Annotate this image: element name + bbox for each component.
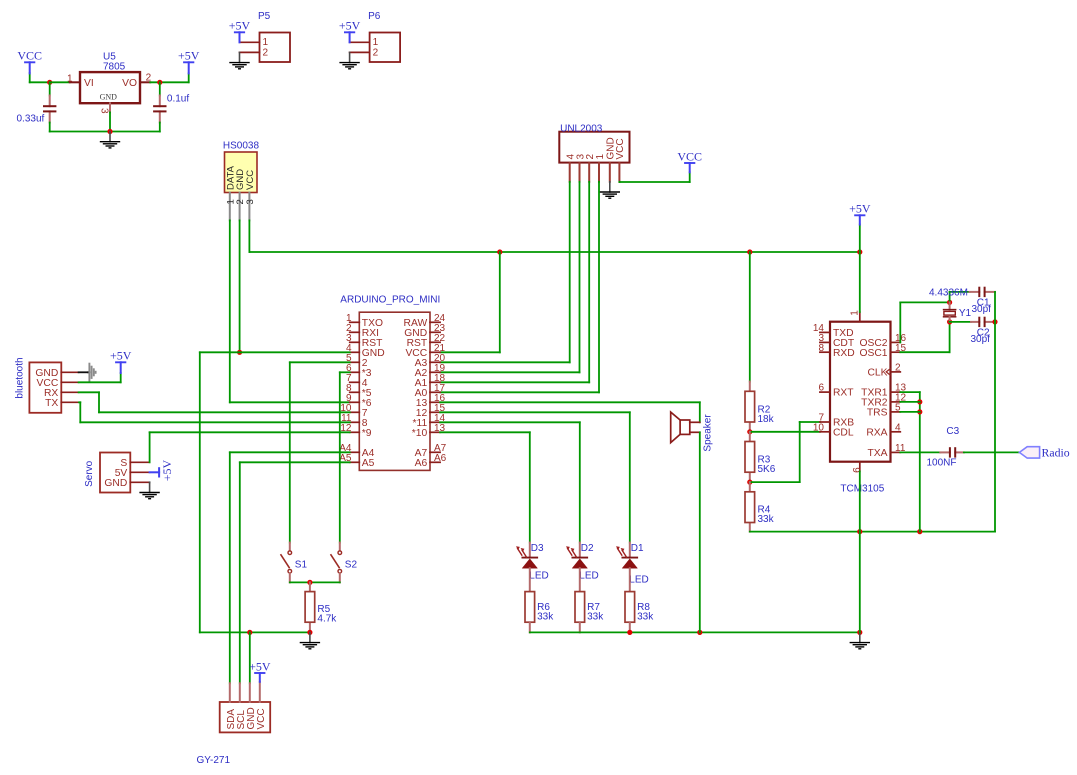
UNL2003 pin 2 lead bbox=[588, 163, 590, 182]
mcu ARDUINO_PRO_MINI body bbox=[359, 312, 430, 470]
connector bluetooth body bbox=[29, 362, 61, 412]
ARDUINO pin 21 (VCC) right stub bbox=[430, 351, 440, 353]
speaker pin 1 stub bbox=[690, 421, 700, 423]
junction TRS bbox=[917, 409, 922, 414]
capacitor 0.33uf leads bbox=[49, 82, 51, 95]
svg-text:S2: S2 bbox=[345, 560, 358, 571]
resistor R4 33k bbox=[745, 492, 755, 523]
speaker body bbox=[680, 420, 690, 434]
Servo S stub bbox=[130, 461, 149, 463]
resistor R5 leads bbox=[309, 582, 311, 591]
GY-271 SCL lead bbox=[239, 683, 241, 702]
voltage regulator U5 7805 body bbox=[80, 72, 140, 103]
wire HS0038 GND down to GND net bbox=[239, 220, 241, 352]
TCM3105 pin 3 (CDT) stub bbox=[820, 341, 830, 343]
junction C2 right bbox=[992, 319, 997, 324]
ARDUINO pin 8 (*5) left stub bbox=[350, 391, 360, 393]
svg-text:1: 1 bbox=[373, 37, 379, 48]
P6 pin 1 wire bbox=[350, 41, 370, 43]
svg-text:10: 10 bbox=[813, 422, 825, 433]
TCM3105 pin 8 (RXD) stub bbox=[820, 351, 830, 353]
junction R3/R4 to RXB bbox=[747, 480, 752, 485]
junction at U5 ground bbox=[107, 129, 112, 134]
ARDUINO pin 2 (RXI) left stub bbox=[350, 331, 360, 333]
wire TXR2 to column bbox=[900, 401, 920, 403]
ARDUINO pin 13 (*10) right stub bbox=[430, 431, 440, 433]
resistor R2 leads bbox=[749, 382, 751, 392]
ARDUINO pin 19 (A2) right stub bbox=[430, 371, 440, 373]
svg-text:+5V: +5V bbox=[178, 49, 200, 63]
svg-text:+5V: +5V bbox=[229, 19, 251, 33]
wire UNL2003 pin3 to Arduino A2 bbox=[579, 182, 581, 372]
capacitor C2 30pf leads bbox=[950, 321, 971, 323]
svg-text:+5V: +5V bbox=[339, 19, 361, 33]
svg-text:HS0038: HS0038 bbox=[223, 141, 260, 152]
svg-text:7805: 7805 bbox=[103, 62, 126, 73]
TCM3105 pin 12 (TXR2) stub bbox=[891, 401, 901, 403]
ARDUINO pin A6 right stub bbox=[430, 461, 440, 463]
capacitor 0.1uf leads bbox=[159, 82, 161, 95]
TCM3105 pin 10 (CDL) stub bbox=[820, 431, 830, 433]
resistor R6 33k bbox=[525, 592, 535, 623]
svg-text:OSC1: OSC1 bbox=[859, 348, 887, 359]
switch S2 bbox=[339, 543, 341, 551]
svg-text:A6: A6 bbox=[434, 453, 447, 464]
wire U5 VO to +5V and C-0.1uf bbox=[150, 81, 189, 83]
svg-text:4.4336M: 4.4336M bbox=[929, 287, 968, 298]
ARDUINO pin 7 (4) left stub bbox=[350, 381, 360, 383]
header P6 body bbox=[370, 33, 401, 63]
LED D2 lead to R7 bbox=[579, 568, 581, 591]
svg-text:4: 4 bbox=[895, 422, 901, 433]
LED D1 lead to R8 bbox=[629, 568, 631, 591]
svg-text:5K6: 5K6 bbox=[758, 464, 776, 475]
LED D2 bbox=[579, 543, 581, 558]
ARDUINO pin 5 (2) left stub bbox=[350, 361, 360, 363]
svg-text:2: 2 bbox=[895, 363, 901, 374]
LED D3 lead to R6 bbox=[529, 568, 531, 591]
U5 pin 2 stub bbox=[140, 81, 150, 83]
svg-text:6: 6 bbox=[818, 383, 824, 394]
junction crystal bottom bbox=[947, 319, 952, 324]
capacitor C3 100NF leads bbox=[940, 451, 950, 453]
ARDUINO pin A7 right stub bbox=[430, 451, 440, 453]
svg-text:CLK: CLK bbox=[867, 368, 887, 379]
LED D1 bbox=[629, 543, 631, 558]
wire Arduino GND pin4 to left bbox=[200, 351, 350, 353]
wire TCM OSC1 to crystal bottom bbox=[900, 351, 949, 353]
wire Arduino pin16 13 to speaker bbox=[440, 401, 700, 403]
capacitor C1 30pf leads bbox=[970, 291, 980, 293]
TCM3105 pin 6 (RXT) stub bbox=[820, 391, 830, 393]
wire TRS to column bbox=[900, 411, 920, 413]
switch S1 bbox=[289, 543, 291, 551]
svg-text:Radio: Radio bbox=[1042, 446, 1070, 460]
svg-text:2: 2 bbox=[373, 48, 379, 59]
junction speaker return bbox=[697, 630, 702, 635]
TCM3105 pin 7 (RXB) stub bbox=[820, 421, 830, 423]
svg-text:GND: GND bbox=[104, 478, 127, 489]
svg-text:4.7k: 4.7k bbox=[317, 614, 337, 625]
svg-text:UNL2003: UNL2003 bbox=[560, 123, 603, 134]
supply +5V (near U5) bbox=[188, 73, 190, 82]
ARDUINO pin A4 left stub bbox=[350, 451, 360, 453]
wire bluetooth VCC to +5V bbox=[79, 381, 121, 383]
wire speaker to ground rail bbox=[699, 432, 701, 632]
wire junction to TCM RXB pin7 bbox=[750, 481, 800, 483]
junction switches to R5 bbox=[307, 580, 312, 585]
ground under U5 bbox=[109, 132, 111, 142]
svg-text:*9: *9 bbox=[362, 428, 372, 439]
svg-text:0.33uf: 0.33uf bbox=[17, 114, 45, 125]
svg-text:33k: 33k bbox=[587, 612, 604, 623]
driver UNL2003 body bbox=[559, 132, 629, 163]
ARDUINO pin 22 (RST) right stub bbox=[430, 341, 440, 343]
svg-text:TXA: TXA bbox=[867, 448, 887, 459]
net flag Radio bbox=[1019, 447, 1039, 458]
svg-text:LED: LED bbox=[529, 570, 548, 581]
TCM3105 pin 13 (TXR1) stub bbox=[891, 391, 901, 393]
wire rail to R2 bbox=[749, 252, 751, 382]
supply +5V (rail right) bbox=[859, 225, 861, 253]
junction GY-271 GND column bbox=[247, 630, 252, 635]
wire UNL2003 pin2 to Arduino A1 bbox=[588, 182, 590, 382]
TCM3105 pin 11 (TXA) stub bbox=[891, 451, 901, 453]
wire Servo S to Arduino pin12 *9 bbox=[149, 432, 151, 462]
svg-text:30pf: 30pf bbox=[972, 304, 992, 315]
bluetooth RX stub bbox=[61, 391, 78, 393]
Servo GND stub bbox=[130, 481, 149, 483]
wire Arduino pin13 *10 to D3 bbox=[440, 431, 530, 433]
wire crystal top to C1 bbox=[949, 292, 951, 303]
svg-text:TCM3105: TCM3105 bbox=[840, 483, 884, 494]
header P5 body bbox=[260, 33, 291, 63]
ground at P6 bbox=[349, 52, 351, 62]
wire Arduino pin6 *3 to S2 bbox=[340, 371, 350, 373]
UNL2003 pin 4 lead bbox=[569, 163, 571, 182]
U5 pin 3 stub (GND) bbox=[109, 103, 111, 112]
UNL2003 GND lead bbox=[609, 163, 611, 182]
svg-text:33k: 33k bbox=[537, 612, 554, 623]
svg-text:D1: D1 bbox=[631, 543, 644, 554]
wire TCM ground column bbox=[859, 532, 861, 633]
LED D3 bbox=[529, 543, 531, 558]
HS0038 pin 1 (DATA) bbox=[229, 193, 231, 221]
wire bluetooth GND to ground bbox=[79, 371, 89, 373]
wire GND net down left side bbox=[199, 352, 201, 632]
U5 pin 1 stub bbox=[70, 81, 80, 83]
connector GY-271 body bbox=[220, 702, 271, 732]
ARDUINO pin 18 (A1) right stub bbox=[430, 381, 440, 383]
svg-text:D2: D2 bbox=[581, 543, 594, 554]
svg-text:Servo: Servo bbox=[84, 460, 95, 487]
svg-text:C3: C3 bbox=[946, 426, 959, 437]
UNL2003 VCC lead bbox=[618, 163, 620, 182]
ARDUINO pin 9 (*6) left stub bbox=[350, 401, 360, 403]
resistor R8 33k bbox=[625, 592, 635, 623]
junction crystal top bbox=[947, 300, 952, 305]
resistor R6 bottom lead bbox=[529, 622, 531, 632]
ARDUINO pin 14 (*11) right stub bbox=[430, 421, 440, 423]
wire bluetooth RX to Arduino pin10 7 bbox=[79, 391, 99, 393]
HS0038 pin 2 (GND) bbox=[239, 193, 241, 221]
connector Servo body bbox=[100, 453, 130, 493]
svg-text:CDL: CDL bbox=[833, 427, 854, 438]
svg-text:100NF: 100NF bbox=[927, 458, 957, 469]
svg-text:P6: P6 bbox=[368, 11, 381, 22]
svg-text:RXT: RXT bbox=[833, 388, 854, 399]
ARDUINO pin A5 left stub bbox=[350, 461, 360, 463]
wire Arduino pin14 *11 to D2 bbox=[440, 421, 580, 423]
GY-271 SDA lead bbox=[229, 683, 231, 702]
ARDUINO pin 23 (GND) right stub bbox=[430, 331, 440, 333]
TCM3105 pin 4 (RXA) stub bbox=[891, 431, 901, 433]
speaker pin 2 stub bbox=[690, 431, 700, 433]
wire VCC input net top-left bbox=[29, 73, 31, 82]
svg-text:TRS: TRS bbox=[867, 408, 888, 419]
bluetooth GND stub bbox=[61, 371, 78, 373]
GY-271 VCC lead bbox=[259, 682, 261, 702]
ARDUINO pin 16 (13) right stub bbox=[430, 401, 440, 403]
UNL2003 pin 3 lead bbox=[579, 163, 581, 182]
capacitor 0.33uf bbox=[43, 105, 56, 107]
svg-text:+5V: +5V bbox=[849, 202, 871, 216]
svg-text:30pf: 30pf bbox=[971, 334, 991, 345]
wire TCM OSC2 to crystal top bbox=[899, 302, 901, 342]
svg-text:A6: A6 bbox=[415, 458, 428, 469]
TCM3105 pin 16 (OSC2) stub bbox=[891, 341, 901, 343]
svg-text:S1: S1 bbox=[295, 560, 308, 571]
TCM3105 CLK clock mark bbox=[886, 369, 890, 376]
wire Arduino A5 to GY-271 SCL bbox=[240, 461, 350, 463]
TCM3105 pin 9 bottom stub bbox=[859, 462, 861, 472]
wire S2 bottom to junction bbox=[310, 581, 340, 583]
svg-text:3: 3 bbox=[99, 108, 110, 114]
supply VCC (near UNL2003) bbox=[689, 163, 691, 172]
ARDUINO pin 17 (A0) right stub bbox=[430, 391, 440, 393]
ARDUINO pin 3 (RST) left stub bbox=[350, 341, 360, 343]
wire U5 GND down bbox=[109, 112, 111, 131]
bluetooth TX stub bbox=[61, 401, 79, 403]
ARDUINO pin 1 (TXO) left stub bbox=[350, 321, 360, 323]
junction rail to Arduino VCC bbox=[497, 249, 502, 254]
wire C1/C2 right column bbox=[994, 292, 996, 532]
wire HS0038 DATA to Arduino pin9 *6 bbox=[229, 220, 231, 402]
ARDUINO pin 20 (A3) right stub bbox=[430, 361, 440, 363]
supply +5V (bluetooth) bbox=[120, 362, 122, 373]
wire C3 to Radio flag bbox=[964, 451, 1020, 453]
TCM3105 pin 14 (TXD) stub bbox=[820, 331, 830, 333]
wire UNL2003 VCC to VCC supply bbox=[618, 181, 620, 183]
resistor R7 33k bbox=[575, 592, 585, 623]
capacitor C1 30pf bbox=[978, 287, 980, 297]
svg-text:1: 1 bbox=[849, 310, 860, 316]
P5 pin 1 wire bbox=[240, 41, 260, 43]
ARDUINO pin 24 (RAW) right stub bbox=[430, 321, 440, 323]
junction at C-0.1uf top bbox=[157, 80, 162, 85]
crystal Y1 4.4336M bbox=[949, 302, 951, 309]
svg-text:3: 3 bbox=[245, 199, 256, 204]
capacitor C2 30pf bbox=[978, 317, 980, 327]
P6 pin 2 wire bbox=[350, 51, 370, 53]
svg-text:D3: D3 bbox=[531, 543, 544, 554]
svg-text:0.1uf: 0.1uf bbox=[167, 93, 189, 104]
ARDUINO pin 15 (12) right stub bbox=[430, 411, 440, 413]
resistor R3 5K6 bbox=[745, 442, 755, 473]
ARDUINO pin 11 (8) left stub bbox=[350, 421, 360, 423]
svg-text:VCC: VCC bbox=[245, 170, 256, 190]
wire ground bus under U5 bbox=[50, 131, 160, 133]
svg-text:GY-271: GY-271 bbox=[197, 755, 231, 766]
svg-text:VO: VO bbox=[122, 78, 137, 89]
junction at TCM ground column bbox=[857, 630, 862, 635]
UNL2003 pin 1 lead bbox=[598, 163, 600, 182]
capacitor C3 100NF bbox=[949, 447, 951, 457]
resistor R4 leads bbox=[749, 482, 751, 492]
supply +5V (P6) bbox=[349, 32, 351, 42]
svg-text:RXA: RXA bbox=[866, 427, 887, 438]
svg-text:2: 2 bbox=[263, 48, 269, 59]
wire UNL2003 pin1 to Arduino A0 bbox=[598, 182, 600, 392]
junction rail to R2 bbox=[747, 249, 752, 254]
svg-text:1: 1 bbox=[263, 37, 269, 48]
svg-text:1: 1 bbox=[595, 154, 606, 160]
ARDUINO pin 10 (7) left stub bbox=[350, 411, 360, 413]
junction R2/R3 to CDL bbox=[747, 429, 752, 434]
HS0038 pin 3 (VCC) bbox=[248, 193, 250, 221]
IR receiver HS0038 body bbox=[225, 152, 258, 193]
svg-text:LED: LED bbox=[579, 570, 598, 581]
wire UNL2003 pin4 to Arduino A3 bbox=[569, 182, 571, 362]
wire Arduino pin5 2 to S1 bbox=[290, 361, 350, 363]
wire rail down to Arduino VCC pin21 bbox=[499, 252, 501, 352]
resistor R7 bottom lead bbox=[579, 622, 581, 632]
ground (rotated) at bluetooth bbox=[88, 371, 89, 373]
ARDUINO pin 4 (GND) left stub bbox=[350, 351, 360, 353]
ground at R5 bbox=[309, 632, 311, 642]
svg-text:1: 1 bbox=[67, 73, 73, 84]
junction rail at +5V supply bbox=[857, 249, 862, 254]
wire to U5 VI bbox=[50, 81, 70, 83]
resistor R5 4.7k bbox=[305, 592, 315, 623]
svg-text:33k: 33k bbox=[637, 612, 654, 623]
capacitor 0.1uf bbox=[153, 105, 166, 107]
supply +5V rotated (Servo) bbox=[150, 471, 160, 473]
ARDUINO pin 12 (*9) left stub bbox=[350, 431, 360, 433]
junction HS0038 GND / Arduino GND wire bbox=[237, 350, 242, 355]
junction R5 bottom bbox=[307, 630, 312, 635]
wire S1 bottom to junction bbox=[290, 581, 310, 583]
wire GND net bottom left rail bbox=[200, 631, 310, 633]
wire HS0038 VCC down to +5V rail bbox=[248, 220, 250, 252]
resistor R8 bottom lead bbox=[629, 622, 631, 632]
svg-text:VI: VI bbox=[84, 78, 94, 89]
junction TCM pin9 column bbox=[857, 529, 862, 534]
ARDUINO pin 6 (*3) left stub bbox=[350, 371, 360, 373]
svg-text:VCC: VCC bbox=[17, 49, 42, 63]
svg-text:*10: *10 bbox=[412, 428, 428, 439]
wire Arduino A4 to GY-271 SDA bbox=[230, 451, 350, 453]
wire LED ground rail bbox=[530, 631, 860, 633]
svg-text:GND: GND bbox=[100, 93, 118, 102]
svg-text:VCC: VCC bbox=[677, 149, 702, 163]
modem TCM3105 body bbox=[830, 322, 891, 462]
wire TCM bottom rail bbox=[750, 531, 995, 533]
wire bluetooth TX to Arduino pin11 8 bbox=[79, 401, 80, 403]
wire +5V rail bbox=[249, 251, 859, 253]
wire GY-271 GND column down bbox=[249, 632, 251, 683]
wire Arduino pin15 12 to D1 bbox=[440, 411, 630, 413]
svg-text:18k: 18k bbox=[758, 414, 775, 425]
wire TCM TXA to C3 bbox=[900, 451, 940, 453]
svg-text:VCC: VCC bbox=[615, 138, 626, 159]
wire +5V rail to TCM pin1 bbox=[859, 252, 861, 312]
resistor R3 leads bbox=[749, 432, 751, 442]
ground at Servo bbox=[149, 481, 151, 483]
ground at LED rail bbox=[859, 632, 861, 642]
junction at C-0.33uf top bbox=[47, 80, 52, 85]
svg-text:Speaker: Speaker bbox=[703, 414, 714, 452]
svg-text:TX: TX bbox=[45, 398, 58, 409]
TCM3105 pin 2 (CLK) stub bbox=[891, 371, 901, 373]
junction TXR2 bbox=[917, 399, 922, 404]
wire TCM pin9 to bottom rail bbox=[859, 471, 861, 531]
resistor R2 18k bbox=[745, 391, 755, 422]
svg-text:8: 8 bbox=[818, 343, 824, 354]
svg-text:A5: A5 bbox=[362, 458, 375, 469]
bluetooth VCC stub bbox=[61, 381, 78, 383]
svg-text:Y1: Y1 bbox=[959, 308, 972, 319]
ground at UNL2003 bbox=[609, 182, 611, 192]
svg-text:+5V: +5V bbox=[160, 460, 174, 482]
GY-271 GND lead bbox=[249, 683, 251, 702]
TCM3105 pin 5 (TRS) stub bbox=[891, 411, 901, 413]
TCM3105 pin 1 top stub bbox=[859, 312, 861, 322]
svg-text:ARDUINO_PRO_MINI: ARDUINO_PRO_MINI bbox=[340, 294, 440, 305]
svg-text:+5V: +5V bbox=[110, 349, 132, 363]
junction R8 bottom bbox=[627, 630, 632, 635]
wire junction to TCM CDL pin10 bbox=[750, 431, 820, 433]
supply VCC (top-left) bbox=[29, 62, 31, 73]
P5 pin 2 wire bbox=[240, 51, 260, 53]
svg-text:RXD: RXD bbox=[833, 348, 855, 359]
ground at P5 bbox=[239, 52, 241, 62]
svg-text:33k: 33k bbox=[758, 514, 775, 525]
supply +5V (P5) bbox=[239, 32, 241, 42]
supply +5V (GY-271) bbox=[259, 673, 261, 682]
svg-text:LED: LED bbox=[629, 574, 648, 585]
svg-text:bluetooth: bluetooth bbox=[14, 357, 25, 398]
svg-text:P5: P5 bbox=[258, 11, 271, 22]
svg-text:VCC: VCC bbox=[256, 708, 267, 729]
svg-text:+5V: +5V bbox=[249, 659, 271, 673]
TCM3105 pin 15 (OSC1) stub bbox=[891, 351, 901, 353]
junction TXR column bbox=[917, 529, 922, 534]
wire TXR1 to column bbox=[900, 391, 920, 393]
Servo 5V stub bbox=[130, 471, 149, 473]
